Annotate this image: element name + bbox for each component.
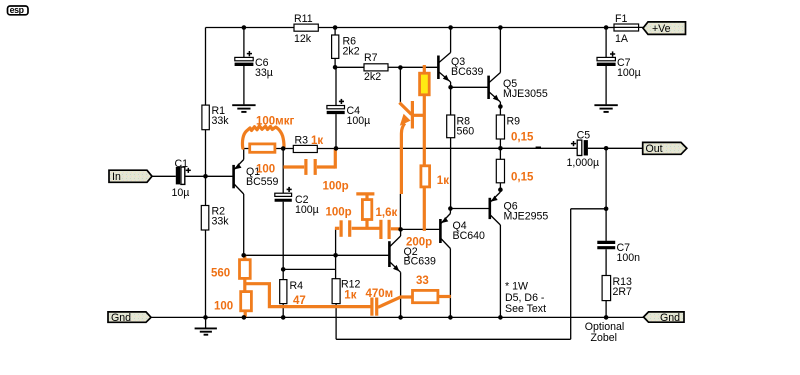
capacitor C2 xyxy=(275,149,319,270)
svg-text:33k: 33k xyxy=(212,115,230,127)
transistor Q4 xyxy=(401,209,485,318)
junction ground rail Q6 collector xyxy=(498,315,503,320)
svg-text:Gnd: Gnd xyxy=(660,312,680,324)
svg-text:BC639: BC639 xyxy=(451,66,483,78)
svg-text:100p: 100p xyxy=(326,207,352,219)
capacitor 470m orange xyxy=(366,288,413,316)
transistor Q2 xyxy=(336,229,436,317)
wire feedback node to R3 xyxy=(244,148,294,150)
svg-text:100µ: 100µ xyxy=(617,67,641,79)
junction output zobel feedback xyxy=(604,207,609,212)
wire R2 to ground rail xyxy=(205,230,207,317)
note optional zobel xyxy=(585,321,624,344)
svg-text:* 1W: * 1W xyxy=(505,280,528,292)
resistor R6 xyxy=(332,28,360,68)
note D5 D6 xyxy=(505,280,546,315)
junction ground rail R2 xyxy=(203,315,208,320)
resistor R8 xyxy=(447,87,475,208)
junction Q1 collector node xyxy=(241,253,246,258)
svg-text:33k: 33k xyxy=(212,215,230,227)
transistor Q5 xyxy=(451,28,548,116)
svg-text:BC559: BC559 xyxy=(246,176,278,188)
junction ground rail orange 100 xyxy=(242,315,247,320)
junction Q3 collector rail xyxy=(448,25,453,30)
tag +Ve xyxy=(643,22,686,35)
capacitor C7 supply xyxy=(597,28,641,105)
resistor 1k orange xyxy=(421,166,449,231)
svg-text:F1: F1 xyxy=(615,13,627,25)
svg-text:See Text: See Text xyxy=(505,303,546,315)
resistor R1 xyxy=(202,105,229,130)
svg-text:Zobel: Zobel xyxy=(591,332,618,344)
transistor orange hand-drawn xyxy=(399,101,423,194)
svg-text:1,6к: 1,6к xyxy=(376,207,398,219)
junction Q2 collector Q4 base xyxy=(398,227,403,232)
junction F1 rail xyxy=(604,25,609,30)
svg-text:C5: C5 xyxy=(577,130,591,142)
svg-text:Optional: Optional xyxy=(585,321,624,333)
svg-text:R11: R11 xyxy=(294,13,313,25)
junction C6 top rail xyxy=(242,25,247,30)
wire y269 line xyxy=(283,268,335,270)
capacitor 200p orange right xyxy=(381,220,432,249)
wire riser x335 xyxy=(335,229,337,270)
svg-text:470м: 470м xyxy=(366,288,394,300)
wire R1 to input node xyxy=(205,130,207,206)
svg-text:1к: 1к xyxy=(437,175,449,187)
resistor R3 xyxy=(293,134,336,152)
svg-text:12k: 12k xyxy=(294,33,312,45)
orange labels 0,15 xyxy=(511,132,534,184)
resistor R10 0,15 xyxy=(496,159,504,189)
junction R6 top rail xyxy=(333,25,338,30)
svg-text:BC640: BC640 xyxy=(453,230,485,242)
tag Gnd right xyxy=(644,312,685,324)
wire feedback horizontal from output node xyxy=(571,208,606,210)
resistor R12 xyxy=(332,269,360,339)
junction ground rail R4 xyxy=(281,315,286,320)
junction ground rail Q4 collector xyxy=(448,315,453,320)
svg-text:MJE3055: MJE3055 xyxy=(503,88,548,100)
transistor Q3 xyxy=(400,28,483,88)
wire mid rail to C5 xyxy=(336,147,577,149)
junction R6 R7 C4 xyxy=(333,65,338,70)
svg-text:R7: R7 xyxy=(364,52,378,64)
wire x400 vertical xyxy=(399,67,401,229)
svg-text:100: 100 xyxy=(256,164,275,176)
ground under C6 xyxy=(232,105,255,112)
svg-text:33: 33 xyxy=(416,275,429,287)
junction Q5 emitter R9 xyxy=(498,104,503,109)
svg-text:0,15: 0,15 xyxy=(511,172,534,184)
resistor R2 xyxy=(201,205,229,230)
orange wire zigzag to 470m xyxy=(245,284,371,307)
transistor Q1 xyxy=(206,149,279,256)
svg-text:BC639: BC639 xyxy=(404,255,436,267)
svg-text:Gnd: Gnd xyxy=(111,312,131,324)
orange label 1k near R3 xyxy=(311,135,323,147)
tag In xyxy=(109,170,152,183)
svg-text:10µ: 10µ xyxy=(172,187,190,199)
svg-text:C1: C1 xyxy=(175,158,189,170)
svg-text:47: 47 xyxy=(293,295,306,307)
svg-text:100мкг: 100мкг xyxy=(256,115,294,127)
junction R7 Q3 base xyxy=(398,65,403,70)
svg-text:1,000µ: 1,000µ xyxy=(567,157,600,169)
wire feedback bottom to R12 xyxy=(336,338,571,340)
junction R9 R10 output xyxy=(498,146,503,151)
capacitor C4 xyxy=(327,67,371,148)
wire emitter line y255 xyxy=(244,254,336,256)
wire output down xyxy=(605,148,607,209)
resistor R9 xyxy=(496,115,520,159)
capacitor C7 zobel xyxy=(597,209,640,276)
svg-text:200p: 200p xyxy=(406,237,432,249)
resistor 560 orange xyxy=(211,256,250,292)
junction R10 Q6 emitter xyxy=(498,187,503,192)
svg-text:R12: R12 xyxy=(341,278,361,290)
capacitor C5 xyxy=(567,130,607,169)
svg-text:33µ: 33µ xyxy=(255,67,273,79)
capacitor 100p orange upper xyxy=(283,149,348,193)
svg-text:2k2: 2k2 xyxy=(364,71,381,83)
capacitor 100p orange lower xyxy=(326,207,380,237)
svg-text:esp: esp xyxy=(10,5,25,15)
svg-text:R9: R9 xyxy=(507,115,521,127)
junction Q5 collector rail xyxy=(498,25,503,30)
tag Gnd left xyxy=(108,312,151,324)
svg-text:R3: R3 xyxy=(295,134,309,146)
inductor 100mkg scribble xyxy=(242,115,294,148)
svg-text:1к: 1к xyxy=(344,290,356,302)
junction ground rail Q2 emitter xyxy=(398,315,403,320)
svg-text:Out: Out xyxy=(646,143,663,155)
resistor R7 xyxy=(335,52,400,83)
svg-text:100µ: 100µ xyxy=(295,204,319,216)
transistor Q6 xyxy=(450,190,548,318)
ground under C7 xyxy=(594,105,617,112)
svg-text:0,15: 0,15 xyxy=(511,132,534,144)
capacitor C6 xyxy=(235,28,273,105)
junction Q4 emitter Q6 base xyxy=(448,206,453,211)
resistor 100 orange lower xyxy=(214,292,251,317)
esp logo xyxy=(8,5,29,15)
junction R3 right C4 xyxy=(334,146,339,151)
svg-text:MJE2955: MJE2955 xyxy=(504,210,549,222)
svg-text:100n: 100n xyxy=(617,252,641,264)
ground main xyxy=(195,317,217,334)
junction R3 left C2 xyxy=(281,146,286,151)
wire ground rail xyxy=(151,316,644,318)
resistor R13 xyxy=(602,276,632,318)
junction C2 R4 xyxy=(281,267,286,272)
svg-text:560: 560 xyxy=(211,268,230,280)
capacitor C1 xyxy=(152,158,206,199)
svg-text:+Ve: +Ve xyxy=(652,23,671,35)
resistor 100 orange (parallel) xyxy=(250,144,275,176)
junction ground rail R13 xyxy=(604,315,609,320)
svg-text:R4: R4 xyxy=(290,280,304,292)
resistor R4 xyxy=(280,269,303,317)
junction C1 R1 R2 Q1 base xyxy=(203,174,208,179)
junction C5 out xyxy=(604,146,609,151)
wire feedback vertical xyxy=(570,209,572,339)
svg-text:100: 100 xyxy=(214,301,233,313)
fuse F1 xyxy=(606,13,643,45)
junction Q3 emitter Q5 base xyxy=(448,85,453,90)
wire rail to R1 xyxy=(205,28,207,106)
svg-text:1к: 1к xyxy=(311,135,323,147)
resistor 1,6k orange xyxy=(356,194,397,228)
svg-text:100µ: 100µ xyxy=(347,115,371,127)
wire top rail xyxy=(206,27,607,29)
resistor 1k yellow highlighted orange xyxy=(420,65,430,166)
resistor R11 xyxy=(294,13,318,45)
tag Out xyxy=(606,142,687,154)
svg-text:2R7: 2R7 xyxy=(613,286,633,298)
svg-text:100p: 100p xyxy=(323,180,349,192)
resistor 33 orange xyxy=(413,275,451,303)
svg-text:560: 560 xyxy=(457,125,475,137)
junction Q2 base node xyxy=(333,253,338,258)
svg-text:In: In xyxy=(112,171,121,183)
svg-text:1A: 1A xyxy=(615,33,629,45)
svg-text:2k2: 2k2 xyxy=(343,46,360,58)
